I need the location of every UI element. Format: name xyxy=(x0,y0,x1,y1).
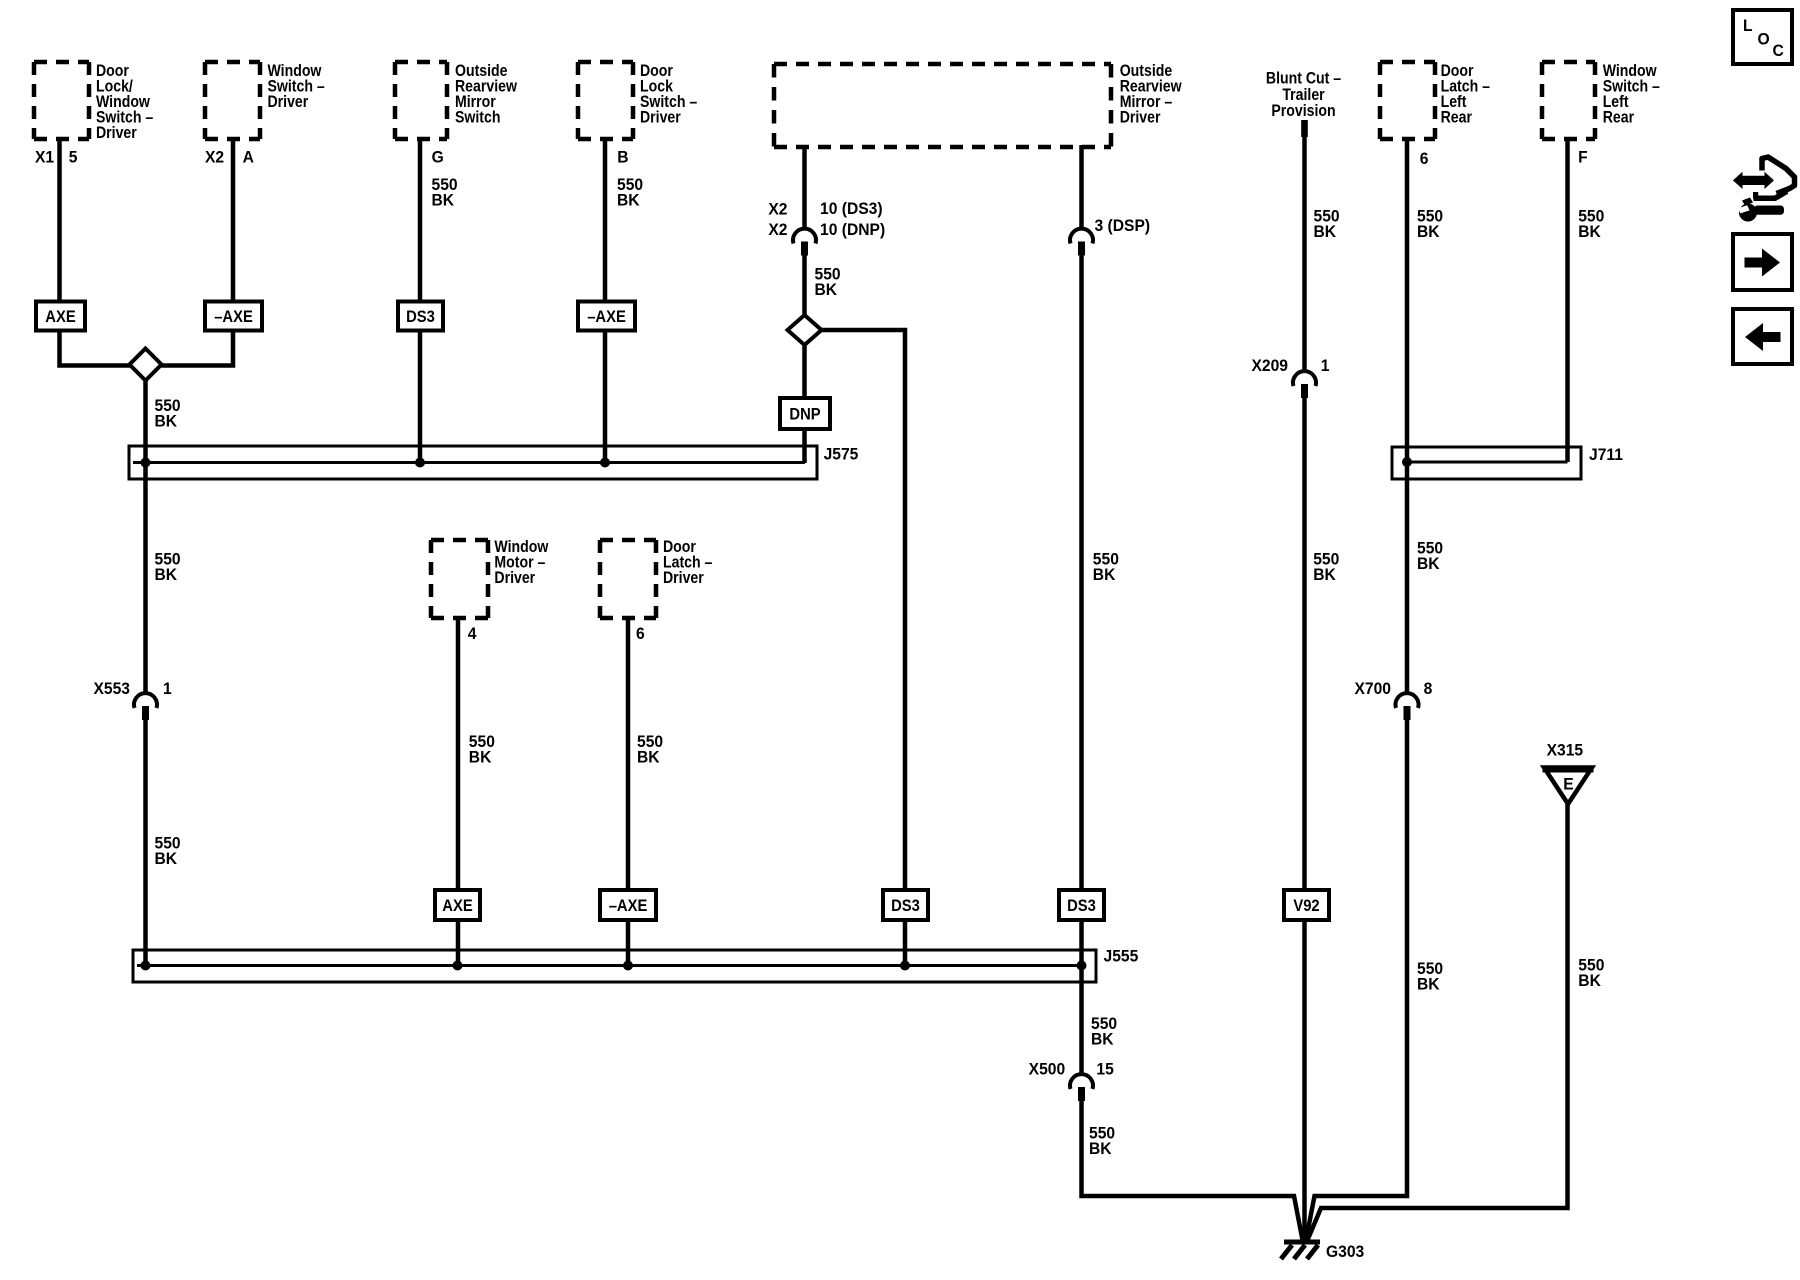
svg-text:O: O xyxy=(1758,30,1770,49)
inline connector DS3 xyxy=(883,890,928,920)
connector dashed box: Door Latch - Left Rear xyxy=(1380,62,1435,139)
connector dashed box: Door Lock Switch - Driver xyxy=(578,62,633,139)
svg-text:6: 6 xyxy=(1420,149,1429,168)
wire: window motor pin 4 to AXE xyxy=(456,618,461,890)
svg-text:X1: X1 xyxy=(35,148,54,167)
svg-text:4: 4 xyxy=(468,624,477,643)
svg-text:–AXE: –AXE xyxy=(587,308,626,326)
svg-text:X315: X315 xyxy=(1547,741,1584,760)
svg-text:DS3: DS3 xyxy=(406,308,435,326)
inline connector DS3 xyxy=(398,302,443,331)
connector dashed box: Door Latch - Driver xyxy=(600,540,656,618)
svg-text:DS3: DS3 xyxy=(1067,897,1096,915)
wire: window switch left rear pin F to J711 xyxy=(1565,137,1570,462)
svg-text:DoorLock/WindowSwitch –Driver: DoorLock/WindowSwitch –Driver xyxy=(96,62,153,142)
wire: pin B to -AXE xyxy=(603,137,608,302)
service icon: jaw bar xyxy=(1754,191,1788,198)
junction dot xyxy=(141,458,151,468)
wire: DS3 through J555 to X500 xyxy=(1079,920,1084,1074)
svg-text:X553: X553 xyxy=(93,680,130,699)
splice X500 xyxy=(1070,1074,1093,1101)
svg-text:6: 6 xyxy=(636,624,645,643)
service icon: wrench xyxy=(1738,198,1784,222)
svg-text:C: C xyxy=(1773,42,1784,61)
service icon: double arrow xyxy=(1733,172,1774,189)
wire: -AXE to splice diamond xyxy=(162,330,234,366)
svg-text:5: 5 xyxy=(69,148,78,167)
svg-text:DS3: DS3 xyxy=(891,897,920,915)
svg-text:V92: V92 xyxy=(1293,897,1319,915)
inline connector DS3 xyxy=(1059,890,1104,920)
svg-text:550BK: 550BK xyxy=(1089,1124,1115,1158)
connector dashed box: Door Lock/Window Switch - Driver xyxy=(34,62,89,139)
svg-text:8: 8 xyxy=(1424,680,1433,699)
svg-text:550BK: 550BK xyxy=(815,265,841,299)
inline connector AXE xyxy=(435,890,480,920)
wire: -AXE to J575 xyxy=(603,330,608,463)
svg-text:550BK: 550BK xyxy=(1417,207,1443,241)
wire: diamond to DNP xyxy=(802,345,807,398)
connector dashed box: Window Motor - Driver xyxy=(431,540,488,618)
svg-text:WindowSwitch –Driver: WindowSwitch –Driver xyxy=(268,62,325,111)
wire: -AXE to J555 xyxy=(626,920,631,966)
svg-text:–AXE: –AXE xyxy=(214,308,253,326)
wire: X315 to ground G303 xyxy=(1308,803,1568,1240)
svg-text:550BK: 550BK xyxy=(1417,960,1443,994)
wire: blunt cut to X209 xyxy=(1302,137,1307,371)
svg-text:AXE: AXE xyxy=(45,308,75,326)
svg-text:550BK: 550BK xyxy=(637,733,663,767)
svg-text:X700: X700 xyxy=(1354,680,1391,699)
inline connector -AXE xyxy=(578,302,635,331)
wire: diamond to X553 xyxy=(143,381,148,694)
svg-text:DoorLatch –Driver: DoorLatch –Driver xyxy=(663,538,713,587)
wire: X553 to J555 xyxy=(143,720,148,966)
wire: door latch left rear pin 6 to X700 xyxy=(1405,137,1410,693)
splice pack J555 xyxy=(133,950,1096,982)
svg-text:550BK: 550BK xyxy=(617,175,643,209)
svg-text:B: B xyxy=(617,148,628,167)
svg-text:J555: J555 xyxy=(1104,947,1139,966)
svg-text:550BK: 550BK xyxy=(155,397,181,431)
svg-text:15: 15 xyxy=(1096,1060,1113,1079)
svg-text:DNP: DNP xyxy=(789,406,821,424)
svg-text:Blunt Cut –TrailerProvision: Blunt Cut –TrailerProvision xyxy=(1266,69,1341,120)
wire: DNP to J575 xyxy=(802,429,807,463)
svg-text:AXE: AXE xyxy=(442,897,472,915)
connector X315 triangle E xyxy=(1543,768,1594,805)
connector dashed box: Outside Rearview Mirror - Driver (large) xyxy=(774,64,1111,147)
svg-text:OutsideRearviewMirrorSwitch: OutsideRearviewMirrorSwitch xyxy=(455,62,518,127)
splice diamond S2 xyxy=(788,315,822,345)
svg-text:X2: X2 xyxy=(205,148,224,167)
right arrow box icon xyxy=(1733,234,1792,290)
svg-text:1: 1 xyxy=(163,680,172,699)
inline connector V92 xyxy=(1284,890,1329,920)
wire: AXE to J555 xyxy=(456,920,461,966)
svg-text:J575: J575 xyxy=(824,445,859,464)
connector dashed box: Window Switch - Left Rear xyxy=(1542,62,1595,139)
svg-text:X500: X500 xyxy=(1029,1060,1066,1079)
splice diamond S1 xyxy=(130,349,162,381)
svg-text:X2X2: X2X2 xyxy=(768,200,787,240)
wire: DS3 to J555 xyxy=(903,920,908,966)
svg-text:DoorLatch –LeftRear: DoorLatch –LeftRear xyxy=(1441,62,1491,127)
splice pack J575 xyxy=(129,446,817,479)
wire: V92 to ground G303 xyxy=(1302,920,1307,1240)
wire: X209 to V92 xyxy=(1302,398,1307,890)
svg-text:WindowMotor –Driver: WindowMotor –Driver xyxy=(494,538,549,587)
left arrow box icon xyxy=(1733,309,1792,364)
splice X553 xyxy=(134,693,157,720)
wire: AXE to splice diamond xyxy=(60,330,130,366)
svg-text:550BK: 550BK xyxy=(1093,550,1119,584)
svg-text:E: E xyxy=(1563,775,1574,794)
junction dot xyxy=(1077,961,1087,971)
inline connector -AXE xyxy=(600,890,656,920)
ground G303 symbol xyxy=(1281,1242,1320,1259)
wire: pin 5 to AXE xyxy=(57,137,62,302)
wire: diamond branch to DS3 xyxy=(822,330,906,890)
svg-text:–AXE: –AXE xyxy=(609,897,648,915)
svg-text:550BK: 550BK xyxy=(1417,539,1443,573)
svg-text:F: F xyxy=(1578,148,1588,167)
connector dashed box: Window Switch - Driver xyxy=(205,62,260,139)
wire: X700 to ground G303 xyxy=(1306,720,1407,1240)
blunt cut stub xyxy=(1301,120,1308,137)
splice cup 3(DSP) xyxy=(1070,229,1093,256)
inline connector DNP xyxy=(780,398,830,429)
wire: mirror pin 3 to splice xyxy=(1079,145,1084,229)
svg-text:1: 1 xyxy=(1321,357,1330,376)
junction dot xyxy=(900,961,910,971)
svg-text:550BK: 550BK xyxy=(1314,207,1340,241)
svg-text:A: A xyxy=(243,148,254,167)
svg-text:OutsideRearviewMirror –Driver: OutsideRearviewMirror –Driver xyxy=(1120,62,1183,127)
splice pack J711 xyxy=(1392,447,1581,479)
svg-text:550BK: 550BK xyxy=(1313,550,1339,584)
svg-text:3 (DSP): 3 (DSP) xyxy=(1095,217,1151,236)
svg-text:10 (DS3)10 (DNP): 10 (DS3)10 (DNP) xyxy=(820,199,885,239)
svg-text:550BK: 550BK xyxy=(469,733,495,767)
wire: pin A to -AXE xyxy=(231,137,236,302)
svg-text:G303: G303 xyxy=(1326,1243,1364,1262)
svg-text:550BK: 550BK xyxy=(1578,207,1604,241)
svg-text:550BK: 550BK xyxy=(432,175,458,209)
wire: pin G to DS3 xyxy=(418,137,423,302)
svg-text:DoorLockSwitch –Driver: DoorLockSwitch –Driver xyxy=(640,62,697,127)
splice cup X2 xyxy=(793,229,816,256)
junction dot xyxy=(141,961,151,971)
wire: DS3 to J575 xyxy=(418,330,423,463)
junction dot xyxy=(600,458,610,468)
junction dot xyxy=(415,458,425,468)
wire: splice to DS3 xyxy=(1079,256,1084,891)
splice X209 xyxy=(1293,371,1316,398)
svg-text:550BK: 550BK xyxy=(155,834,181,868)
wire: splice to diamond S2 xyxy=(802,256,807,316)
svg-text:L: L xyxy=(1743,16,1753,35)
junction dot xyxy=(453,961,463,971)
inline connector AXE xyxy=(36,302,85,331)
splice X700 xyxy=(1396,693,1419,720)
inline connector -AXE xyxy=(205,302,262,331)
wire: X500 to ground G303 xyxy=(1082,1101,1303,1240)
svg-text:G: G xyxy=(432,148,444,167)
svg-text:550BK: 550BK xyxy=(1091,1015,1117,1049)
wire: mirror pin 10 to splice X2 xyxy=(802,145,807,229)
junction dot xyxy=(623,961,633,971)
LOC box icon xyxy=(1733,10,1792,64)
wire: door latch pin 6 to -AXE xyxy=(626,618,631,890)
svg-text:550BK: 550BK xyxy=(155,550,181,584)
svg-text:550BK: 550BK xyxy=(1578,956,1604,990)
svg-text:WindowSwitch –LeftRear: WindowSwitch –LeftRear xyxy=(1603,62,1660,127)
svg-text:J711: J711 xyxy=(1589,446,1623,465)
connector dashed box: Outside Rearview Mirror Switch xyxy=(395,62,447,139)
service icon: hook outline xyxy=(1762,157,1795,194)
junction dot xyxy=(1402,457,1412,467)
svg-text:X209: X209 xyxy=(1251,357,1288,376)
